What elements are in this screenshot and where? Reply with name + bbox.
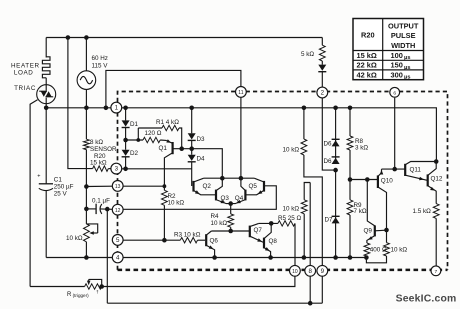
svg-text:1: 1 — [115, 105, 119, 112]
junction Q1 collector — [179, 146, 184, 151]
junction 400 bottom — [364, 255, 369, 260]
svg-text:Q1: Q1 — [159, 145, 168, 152]
junction D1-D2 mid — [123, 128, 128, 143]
svg-text:100: 100 — [391, 51, 403, 60]
label R2 10 k — [168, 193, 185, 207]
svg-text:5: 5 — [116, 237, 120, 244]
wire node 2 column — [322, 98, 335, 170]
svg-text:6: 6 — [393, 90, 396, 96]
label D3 — [197, 136, 206, 143]
junction base row left — [348, 177, 353, 182]
svg-text:8: 8 — [308, 268, 312, 275]
svg-text:TRIAC: TRIAC — [14, 85, 36, 92]
wire node 12 row — [123, 186, 276, 210]
svg-text:10 kΩ: 10 kΩ — [391, 247, 408, 254]
junction pot bottom — [84, 255, 89, 260]
label 60 Hz 115 V — [92, 55, 109, 69]
label 10 k upper — [283, 146, 300, 153]
label 8 k SENSOR — [90, 139, 117, 166]
junction D1 top — [123, 106, 128, 111]
junction Q2Q3 collectors — [220, 176, 225, 181]
resistor 5 k — [319, 45, 325, 61]
wire R4 row — [211, 230, 249, 232]
resistor R1 4 k — [138, 125, 181, 148]
svg-text:0.1 µF: 0.1 µF — [92, 197, 110, 204]
label 400 ohm — [370, 247, 387, 254]
resistor 10 k lower — [301, 200, 307, 214]
junction Q4Q5 collectors — [239, 176, 244, 181]
label Q4 — [235, 195, 244, 202]
svg-text:300: 300 — [391, 70, 403, 79]
junction pin1-pin11 jumper tap — [104, 106, 109, 111]
junction D3 top — [189, 106, 194, 111]
junction R9 bottom — [348, 255, 353, 260]
node 2 — [317, 87, 328, 98]
svg-text:42 kΩ: 42 kΩ — [357, 70, 377, 79]
label R1 4 k — [156, 119, 179, 126]
svg-text:LOAD: LOAD — [14, 69, 34, 76]
diode D4 — [188, 149, 196, 162]
transistor Q9 — [367, 225, 387, 243]
svg-text:Q6: Q6 — [210, 238, 219, 245]
wire D6 to D7 — [335, 170, 337, 223]
wire ac column upper — [85, 38, 87, 71]
wire 10k lower to node4 row — [303, 214, 305, 258]
wire R8 to base row — [349, 150, 351, 180]
svg-text:Q12: Q12 — [431, 176, 443, 183]
resistor R20 15 k — [93, 166, 109, 171]
label Q12 — [431, 176, 443, 183]
diode D3 — [188, 108, 196, 141]
wire node 5 row — [112, 239, 180, 241]
transistor Q1 — [164, 139, 181, 168]
label D6 a — [324, 141, 333, 148]
wire node 4 row — [123, 257, 366, 259]
wire cap-vert down — [106, 209, 108, 303]
node 5 — [112, 235, 123, 246]
svg-text:D3: D3 — [197, 136, 206, 143]
svg-text:25 V: 25 V — [54, 190, 68, 197]
svg-text:13: 13 — [115, 184, 121, 190]
resistor 10 k right — [366, 230, 389, 263]
node 3 — [111, 163, 122, 174]
node 8 — [305, 265, 316, 276]
diode D7 — [332, 216, 340, 223]
label Q1 — [159, 145, 168, 152]
wire node 6 column — [394, 98, 396, 169]
label Q11 — [410, 166, 422, 173]
label R9 7 k — [354, 202, 367, 215]
transistor Q11 — [405, 162, 436, 181]
label 120 ohm — [145, 130, 162, 137]
label Q7 — [254, 227, 263, 234]
wire D4 to Q2 base — [191, 162, 193, 186]
svg-text:120 Ω: 120 Ω — [145, 130, 162, 137]
wire R20 to node 3 — [108, 168, 111, 170]
node 10 — [290, 265, 301, 276]
junction 10k lower bottom — [302, 255, 307, 260]
node 7 — [431, 266, 441, 276]
capacitor C1 — [37, 108, 53, 258]
svg-text:Q5: Q5 — [249, 183, 258, 190]
svg-text:D4: D4 — [197, 156, 206, 163]
junction cap right vert — [105, 207, 110, 212]
resistor 1.5 k — [433, 204, 439, 266]
label Q8 — [269, 238, 278, 245]
junction output collectors — [434, 159, 439, 164]
junction Rtrigger wiper — [99, 284, 104, 289]
svg-text:22 kΩ: 22 kΩ — [357, 61, 377, 70]
wire R2 to node5 row — [163, 205, 165, 240]
junction node6 column — [392, 167, 397, 172]
label 10 k mid2 — [283, 206, 300, 213]
junction heater-rail left vert top — [66, 35, 71, 40]
svg-text:R5 25 Ω: R5 25 Ω — [278, 215, 302, 222]
svg-text:D6: D6 — [324, 158, 333, 165]
node 4 — [112, 252, 123, 263]
ac source 60 Hz 115 V — [77, 71, 96, 90]
wire node4 row left — [46, 257, 112, 259]
node 12 — [112, 204, 123, 215]
label 10 k right — [391, 247, 408, 254]
svg-text:10 kΩ: 10 kΩ — [283, 146, 300, 153]
wire left return rail — [68, 38, 93, 169]
label R3 10 k — [174, 232, 201, 239]
junction D6 bottom — [333, 168, 338, 173]
wire 5k to diode — [321, 61, 323, 65]
wire to node 13 — [86, 185, 112, 187]
IC border dashed top/left/right — [118, 92, 448, 270]
junction ac bottom on phase wire — [84, 106, 89, 111]
svg-text:Q10: Q10 — [381, 177, 393, 184]
svg-text:4: 4 — [116, 255, 120, 262]
svg-text:D7: D7 — [325, 216, 334, 223]
junction D3D4 on collector row — [189, 146, 194, 151]
wire sensor column down — [85, 150, 87, 224]
wire 10k to node9 jog — [304, 155, 322, 266]
wire pin1 to pin11 jumper — [106, 70, 241, 107]
junction cap branch — [84, 207, 89, 212]
svg-text:†: † — [96, 289, 99, 295]
label R8 3 k — [355, 138, 368, 152]
svg-text:7 kΩ: 7 kΩ — [354, 208, 367, 215]
label 0.1 uF — [92, 197, 110, 204]
wire ac column to sensor — [85, 89, 87, 139]
transistor Q12 — [428, 162, 437, 204]
label D7 — [325, 216, 334, 223]
svg-text:10: 10 — [292, 269, 298, 275]
label C1 250uF 25V — [54, 176, 74, 197]
wire phase left segment — [46, 107, 111, 109]
svg-text:WIDTH: WIDTH — [391, 41, 415, 50]
wire 120ohm to Q1 — [160, 139, 166, 141]
wire bottom rail — [107, 302, 322, 304]
transistor Q3 — [216, 178, 231, 203]
wire top horizontal rail — [46, 37, 322, 39]
svg-text:SeekIC.com: SeekIC.com — [396, 294, 457, 305]
junction R5 node — [269, 221, 274, 226]
wire quad collector row — [204, 177, 255, 179]
svg-text:11: 11 — [238, 90, 243, 96]
label Q10 — [381, 177, 393, 184]
junction R4 bottom — [228, 229, 233, 234]
node 1 — [111, 102, 122, 113]
wire top rail corner down — [321, 38, 323, 46]
wire diode to node 2 — [321, 72, 323, 87]
svg-text:7: 7 — [435, 269, 438, 275]
resistor 10 k upper — [301, 108, 307, 155]
svg-text:PULSE: PULSE — [391, 31, 416, 40]
label 10 k pot — [66, 235, 83, 242]
svg-text:10 kΩ: 10 kΩ — [168, 200, 185, 207]
svg-text:R: R — [67, 292, 72, 298]
resistor R9 7 k — [347, 180, 353, 216]
junction Q9 collector branch — [365, 177, 370, 182]
label D4 — [197, 156, 206, 163]
label R5 25 — [278, 215, 302, 222]
diode D6 a — [332, 108, 340, 147]
svg-text:3: 3 — [115, 166, 119, 173]
svg-text:R20: R20 — [361, 30, 375, 39]
transistor Q4 — [231, 178, 246, 203]
wire base row — [126, 139, 143, 141]
wire Q1 base / R2 column — [163, 168, 165, 190]
resistor R8 3 k — [347, 108, 353, 150]
label Q9 — [364, 227, 373, 234]
svg-text:μs: μs — [404, 65, 411, 71]
wire D7 to node4 row — [335, 223, 337, 257]
svg-text:D1: D1 — [130, 121, 139, 128]
junction ac top — [84, 35, 89, 40]
resistor R4 10 k — [228, 204, 234, 231]
junction D6 top — [333, 106, 338, 111]
svg-text:D2: D2 — [130, 150, 139, 157]
junction D2 bottom — [123, 167, 128, 172]
diode D6 b — [332, 146, 340, 164]
svg-text:D6: D6 — [324, 141, 333, 148]
junction node13 branch — [84, 184, 89, 189]
wire phase main — [122, 108, 437, 162]
wire node8 column — [309, 183, 311, 304]
label Q3 — [221, 195, 230, 202]
label Rtrigger — [67, 289, 99, 297]
junction Q8 emitter — [268, 255, 273, 260]
junction triac/C1 on phase wire — [44, 106, 49, 111]
wire triac gate diagonal — [30, 100, 37, 287]
svg-text:(trigger): (trigger) — [73, 293, 90, 298]
junction 10k top — [302, 106, 307, 111]
label HEATER LOAD — [11, 63, 40, 77]
svg-text:μs: μs — [404, 55, 411, 61]
wire D2 to node3 row — [125, 157, 127, 169]
resistor 120 ohm — [143, 137, 160, 142]
transistor Q8 — [264, 223, 271, 257]
capacitor 0.1 uF — [86, 204, 112, 214]
svg-text:μs: μs — [404, 75, 411, 81]
transistor Q2 — [194, 178, 217, 195]
junction R1 branch — [136, 138, 140, 142]
wire triac to bottom node — [45, 104, 47, 108]
svg-text:115 V: 115 V — [92, 62, 109, 69]
junction R8 top — [348, 106, 353, 111]
label D2 — [130, 150, 139, 157]
label TRIAC — [14, 85, 36, 92]
svg-text:12: 12 — [115, 208, 121, 214]
label R4 10 k — [211, 213, 228, 227]
svg-text:2: 2 — [321, 90, 325, 97]
junction R2 bottom — [162, 238, 167, 243]
svg-text:OUTPUT: OUTPUT — [388, 21, 419, 30]
wire collector row — [182, 149, 223, 179]
wire node9 column bottom — [321, 276, 323, 303]
wire pot to node4 wire — [85, 242, 87, 258]
IC border dashed bottom — [118, 269, 448, 272]
svg-text:1.5 kΩ: 1.5 kΩ — [413, 208, 432, 215]
triac TRIAC — [37, 85, 56, 104]
label 5 k — [301, 51, 314, 58]
resistor R3 10 k — [180, 238, 205, 243]
potentiometer Rtrigger — [30, 279, 102, 289]
label D1 — [130, 121, 139, 128]
node 13 — [112, 181, 123, 192]
svg-text:Q3: Q3 — [221, 195, 230, 202]
junction Q6 emitter — [212, 255, 217, 260]
transistor Q5 — [245, 178, 264, 195]
label Q2 — [203, 183, 212, 190]
svg-text:Q4: Q4 — [235, 195, 244, 202]
node 11 — [236, 87, 247, 98]
svg-text:Q7: Q7 — [254, 227, 263, 234]
node 9 — [317, 265, 328, 276]
label D6 b — [324, 158, 333, 165]
svg-text:5 kΩ: 5 kΩ — [301, 51, 314, 58]
wire heater column top — [45, 38, 47, 58]
svg-text:R1 4 kΩ: R1 4 kΩ — [156, 119, 179, 126]
wire Q10 base row — [350, 179, 378, 181]
transistor Q7 — [250, 223, 264, 242]
transistor Q6 — [206, 231, 214, 258]
wire node 3 row — [122, 168, 192, 170]
heater load element — [42, 57, 50, 85]
svg-text:60 Hz: 60 Hz — [92, 55, 108, 62]
potentiometer 10 k — [84, 224, 98, 242]
watermark SeekIC.com — [396, 294, 457, 305]
wire R9 to node4 row — [349, 215, 351, 258]
svg-text:Q11: Q11 — [410, 166, 422, 173]
transistor Q10 — [378, 169, 387, 230]
wire trigger rail to node 10 — [102, 266, 295, 287]
resistor 8 k sensor — [84, 139, 90, 149]
svg-text:250 µF: 250 µF — [54, 183, 74, 190]
wire D3 to junction — [191, 140, 193, 148]
svg-text:15 kΩ: 15 kΩ — [357, 51, 377, 60]
label Q5 — [249, 183, 258, 190]
junction D7 bottom — [333, 255, 338, 260]
svg-text:Q8: Q8 — [269, 238, 278, 245]
resistor R5 25 — [278, 221, 295, 266]
junction bottom rail node8 — [308, 301, 313, 306]
svg-text:3 kΩ: 3 kΩ — [355, 145, 368, 152]
svg-text:9: 9 — [321, 268, 325, 275]
svg-text:10 kΩ: 10 kΩ — [66, 235, 83, 242]
resistor 400 ohm — [364, 243, 370, 258]
table R20 output pulse width — [353, 19, 424, 81]
wire node8 to 10k lower — [304, 183, 310, 200]
svg-text:Q9: Q9 — [364, 227, 373, 234]
wire Q9 collector riser — [367, 180, 375, 226]
svg-text:C1: C1 — [54, 176, 63, 183]
junction Q10 collector — [384, 228, 389, 233]
svg-text:150: 150 — [391, 61, 403, 70]
junction quad emitters — [228, 201, 233, 206]
svg-text:+: + — [37, 174, 40, 180]
diode above node 2 — [318, 65, 326, 72]
diode D1 — [122, 108, 130, 128]
wire R1 riser — [137, 128, 139, 140]
diode D2 — [122, 140, 130, 157]
svg-text:10 kΩ: 10 kΩ — [283, 206, 300, 213]
junction node13 row meets R2 — [112, 184, 166, 188]
svg-text:10 kΩ: 10 kΩ — [211, 220, 228, 227]
resistor R2 10 k — [162, 190, 168, 205]
label Q6 — [210, 238, 219, 245]
wire emitter row — [382, 168, 406, 170]
node 6 — [390, 87, 400, 97]
wire node 11 column — [240, 97, 242, 178]
svg-text:Q2: Q2 — [203, 183, 212, 190]
svg-text:R3 10 kΩ: R3 10 kΩ — [174, 232, 201, 239]
label 1.5 k — [413, 208, 432, 215]
wire Q7 collector row — [259, 222, 278, 224]
